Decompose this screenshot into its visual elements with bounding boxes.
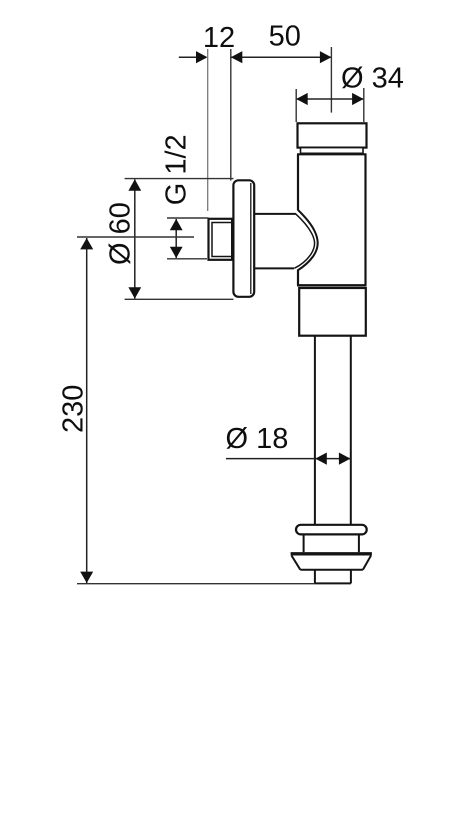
outlet tube left wall xyxy=(314,336,316,525)
Ø60 arrow up xyxy=(128,179,141,190)
outlet tube right wall xyxy=(350,336,352,525)
G1/2 arrow down xyxy=(170,247,183,258)
tailpiece bottom edge xyxy=(315,582,351,584)
escutcheon inner edge line xyxy=(250,183,252,294)
valve body right edge xyxy=(364,154,366,285)
arrow 50 right xyxy=(320,51,332,63)
cap of valve xyxy=(298,123,367,147)
G1/2 dim line xyxy=(175,219,177,258)
Ø60 top extension line xyxy=(125,178,234,180)
inlet pipe bottom line xyxy=(254,267,294,269)
G1/2 top extension line xyxy=(167,217,209,219)
arrow 12 right-pointing xyxy=(196,51,208,63)
valve body top edge xyxy=(297,153,367,155)
lower sleeve xyxy=(299,288,366,336)
inlet dome inner curve xyxy=(294,213,314,268)
valve body left edge upper segment xyxy=(297,154,299,210)
lower flange right slant xyxy=(363,556,371,570)
arrow 50 left xyxy=(231,51,243,63)
Ø18 span line xyxy=(315,458,350,460)
dim line 12 stub xyxy=(179,56,199,58)
wall flange (escutcheon) xyxy=(233,180,254,296)
Ø60 bottom extension line xyxy=(125,298,234,300)
dim line 50 xyxy=(231,56,332,58)
arrow Ø34 left xyxy=(296,93,308,105)
Ø18 leader line xyxy=(226,458,315,460)
neck left wall xyxy=(303,534,305,552)
svg-text:50: 50 xyxy=(269,21,301,53)
valve body left edge lower segment xyxy=(297,270,299,286)
G1/2 bottom extension line xyxy=(167,258,207,260)
Ø18 arrow left xyxy=(315,453,327,465)
collar band under cap xyxy=(301,148,364,154)
neck right wall xyxy=(358,534,360,552)
svg-text:G 1/2: G 1/2 xyxy=(160,134,192,205)
Ø18 arrow right xyxy=(339,453,351,465)
Ø60 arrow down xyxy=(128,287,141,298)
extension line at nut left xyxy=(207,49,209,211)
nut washer edge xyxy=(231,219,233,260)
extension line Ø34 right xyxy=(363,88,365,122)
valve body bottom edge xyxy=(297,284,367,286)
nut inner detail xyxy=(212,223,233,257)
tailpiece left wall xyxy=(314,570,316,584)
Ø60 dim line xyxy=(134,179,136,298)
dim line Ø34 xyxy=(296,98,363,100)
inlet dome outer curve xyxy=(297,210,317,271)
bottom extension line xyxy=(77,583,315,585)
G1/2 arrow up xyxy=(170,219,183,230)
lower flange bottom line xyxy=(300,569,363,571)
tailpiece right wall xyxy=(350,570,352,584)
230 arrow down xyxy=(80,572,93,583)
svg-text:Ø 60: Ø 60 xyxy=(105,202,137,265)
230 dim line xyxy=(86,238,88,583)
svg-text:230: 230 xyxy=(57,385,89,433)
lower flange top bar xyxy=(291,552,372,555)
arrow Ø34 right xyxy=(352,93,364,105)
upper outlet flange (stadium) xyxy=(296,525,367,535)
inlet axis extension line xyxy=(77,236,194,238)
extension line Ø34 left xyxy=(295,89,297,122)
svg-text:Ø 18: Ø 18 xyxy=(226,423,289,455)
230 arrow up xyxy=(80,238,93,249)
nut outer rect xyxy=(209,219,234,260)
extension line valve axis xyxy=(330,47,332,113)
svg-text:Ø 34: Ø 34 xyxy=(341,63,404,95)
lower flange left slant xyxy=(292,556,301,570)
extension line at flange left xyxy=(230,49,232,181)
inlet pipe top line xyxy=(254,213,296,215)
